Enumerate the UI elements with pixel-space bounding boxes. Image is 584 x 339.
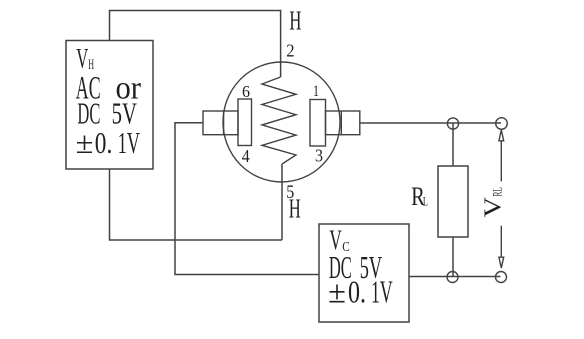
wire: node A to RL top — [452, 124, 454, 167]
VRL arrow down head — [499, 257, 504, 268]
VRL arrow up head — [499, 130, 504, 141]
wire: VC to bottom node B — [409, 276, 501, 278]
terminal bottom (output -) — [496, 272, 507, 283]
svg-text:3: 3 — [315, 146, 323, 166]
heater coil zigzag (pin 2 to pin 5) — [262, 77, 296, 164]
svg-text:RL: RL — [491, 187, 505, 196]
svg-text:±: ± — [76, 125, 94, 160]
svg-text:±: ± — [328, 274, 346, 310]
electrode plate 1-3 (right) — [310, 100, 326, 147]
wire: left tab pin to VC supply — [175, 123, 319, 275]
node A (junction circle) — [447, 118, 458, 129]
wire: right tab pin to output node A — [360, 122, 501, 124]
svg-text:6: 6 — [242, 82, 250, 101]
right pin tab — [326, 111, 360, 135]
svg-text:1V: 1V — [118, 125, 140, 160]
VC sensing supply box — [319, 224, 409, 322]
svg-text:2: 2 — [286, 41, 294, 61]
VRL measure line lower — [500, 226, 502, 258]
svg-text:L: L — [423, 193, 428, 208]
wire: RL bottom to node B — [452, 237, 454, 277]
svg-text:H: H — [289, 194, 301, 224]
svg-text:0.: 0. — [95, 125, 113, 160]
svg-text:4: 4 — [242, 146, 250, 166]
VH heater supply box — [66, 41, 153, 170]
svg-text:1: 1 — [313, 83, 319, 100]
left pin tab — [203, 111, 238, 135]
wire: VH top to heater pin 2 — [110, 11, 281, 78]
node B (junction circle) — [447, 272, 458, 283]
gas sensor body U1 (circle) — [223, 62, 340, 182]
resistor RL — [438, 166, 468, 237]
svg-text:0.: 0. — [348, 274, 366, 310]
terminal top (output +) — [496, 118, 508, 130]
svg-text:H: H — [289, 6, 301, 36]
VRL measure line upper — [500, 141, 502, 182]
wire: VH bottom return to heater pin 5 — [110, 169, 283, 240]
wire: heater pin 5 down — [281, 164, 283, 240]
svg-text:V: V — [481, 196, 507, 217]
svg-text:1V: 1V — [371, 274, 393, 310]
label VRL (rotated) — [481, 187, 507, 217]
electrode plate 6-4 (left) — [238, 99, 252, 146]
